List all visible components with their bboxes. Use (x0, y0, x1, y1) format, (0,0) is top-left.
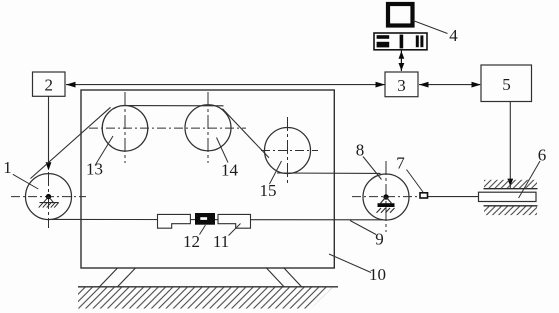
svg-text:7: 7 (396, 154, 405, 173)
computer U4 system unit (374, 33, 427, 50)
belt wire roller1 to roller13 (31, 107, 111, 178)
svg-text:5: 5 (502, 75, 511, 94)
belt wire top tangent 13-14 (123, 105, 224, 107)
svg-text:4: 4 (449, 26, 458, 45)
svg-text:2: 2 (44, 76, 53, 95)
specimen 6 (479, 192, 537, 201)
roller 8 (tension pulley) (352, 161, 419, 232)
label 14 (217, 138, 239, 180)
box 5 (drive unit) (481, 65, 532, 102)
label 8 (356, 141, 382, 180)
roller 14 (185, 92, 231, 163)
svg-text:1: 1 (3, 158, 12, 177)
svg-text:10: 10 (369, 265, 386, 284)
label 11 (213, 224, 241, 252)
wire roller8 to specimen (428, 196, 479, 198)
support legs right (266, 268, 302, 287)
lower wire 9 roller1 to roller8 (50, 218, 383, 220)
upper clamp of 6 with hatching (484, 180, 538, 189)
double arrow computer-box3 (399, 50, 405, 71)
svg-text:6: 6 (538, 146, 547, 165)
label 13 (86, 136, 113, 179)
box 3 (control unit) (385, 72, 418, 97)
label 1 (3, 158, 38, 189)
label 9 (350, 221, 384, 249)
pivot support of roller 1 (39, 194, 59, 208)
box 2 (controller) (33, 72, 66, 96)
pivot support of roller 8 (377, 194, 395, 213)
belt wire roller15 to roller8 (277, 172, 381, 174)
roller 1 (driven pulley) (11, 172, 86, 228)
label 12 (183, 225, 206, 251)
support legs left (100, 268, 136, 287)
svg-text:13: 13 (86, 160, 103, 179)
connector 7 (420, 193, 428, 198)
ground line (78, 286, 338, 288)
clamp block 11 left half (158, 214, 191, 228)
belt wire roller14 to roller15 (223, 109, 270, 158)
wire box3-box5 (419, 82, 481, 88)
clamp block 11 right half (218, 214, 251, 228)
svg-text:3: 3 (397, 76, 406, 95)
frame 10 (machine bed rectangle) (81, 90, 334, 268)
label 7 (396, 154, 423, 193)
svg-text:14: 14 (221, 161, 239, 180)
roller 15 (261, 117, 318, 184)
label 6 (519, 146, 547, 199)
wire box2 down to roller 1 (46, 96, 52, 170)
label 4 leader (413, 21, 458, 46)
ground hatching (78, 287, 333, 309)
svg-text:15: 15 (260, 181, 277, 200)
svg-text:11: 11 (213, 232, 229, 251)
label 10 (329, 254, 386, 284)
computer U4 monitor (388, 4, 413, 26)
lower clamp of 6 with hatching (484, 206, 538, 215)
svg-text:9: 9 (375, 230, 384, 249)
roller 13 (89, 92, 246, 163)
wire box5 down to clamp 6 (507, 101, 513, 189)
wire box2-box3 (66, 82, 385, 88)
label 15 (260, 161, 282, 200)
sensor 12 (black block) (195, 213, 215, 225)
svg-text:12: 12 (183, 232, 200, 251)
